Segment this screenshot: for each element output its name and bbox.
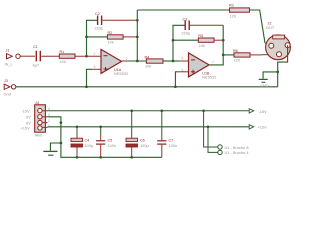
wire U1B output node vertical (209, 25, 223, 65)
ground GND2 (43, 151, 57, 155)
node: tap8 junction (202, 109, 205, 112)
pin circle U1 broche 8 (218, 145, 222, 149)
node: pin3 ground junction (85, 85, 88, 88)
node: R5 left junction (172, 39, 175, 42)
node: C6 ground junction (130, 156, 133, 159)
node: tap4 junction (207, 125, 210, 128)
svg-text:C7: C7 (169, 139, 174, 143)
svg-text:+15V: +15V (21, 126, 31, 131)
svg-text:C5: C5 (108, 139, 113, 143)
arrow +15V (249, 125, 254, 129)
svg-text:U1 - Broche 4: U1 - Broche 4 (225, 150, 250, 155)
svg-text:NE5532: NE5532 (202, 74, 216, 79)
svg-text:C3: C3 (183, 18, 188, 22)
resistor R3 (230, 8, 250, 12)
svg-text:R5: R5 (198, 34, 203, 38)
svg-text:4µ7: 4µ7 (33, 63, 40, 68)
capacitor C4 (100u) top stub (76, 127, 78, 134)
connector J4 (Alim header) (35, 105, 46, 132)
resistor R4 (146, 59, 163, 63)
wire U1A pin3 to ground net (92, 68, 101, 70)
wire to ground symbol GND1 (263, 72, 278, 79)
svg-text:Alim: Alim (35, 133, 43, 138)
node: C7 rail junction (160, 109, 163, 112)
svg-text:100n: 100n (108, 143, 117, 148)
J2 pin A (269, 43, 274, 48)
wire top net to R3 (137, 9, 229, 11)
U1A minus marker (104, 55, 108, 57)
svg-text:2: 2 (48, 119, 50, 123)
svg-text:J4: J4 (35, 101, 39, 105)
svg-text:R2: R2 (108, 31, 113, 35)
svg-text:R1: R1 (60, 50, 65, 54)
wire U1A out to R4 (122, 60, 127, 62)
svg-text:10k: 10k (199, 43, 205, 48)
wire R2 left (87, 36, 108, 38)
svg-text:NE5532: NE5532 (114, 71, 128, 76)
pin lead U1B pin6 (179, 60, 189, 62)
wire J2 pin B to ground (278, 45, 288, 87)
svg-text:100n: 100n (169, 143, 178, 148)
capacitor C7 (100n) top stub (161, 111, 163, 135)
wire feedback left vertical (87, 20, 98, 56)
node: R2 left junction (85, 36, 88, 39)
wire tap U1 pin 8 (204, 111, 218, 147)
wire C2 right (102, 19, 137, 21)
svg-text:R3: R3 (229, 3, 234, 7)
node: C4 rail junction (76, 125, 79, 128)
svg-text:C4: C4 (85, 139, 90, 143)
wire R6 to J2 pin C (250, 54, 262, 56)
resistor R1 (59, 54, 75, 58)
node: J2 ground junction (276, 71, 279, 74)
op-amp U1A (101, 49, 122, 73)
wire U1B feedback left vertical (173, 25, 185, 61)
node: U1B inverting input junction (172, 60, 175, 63)
node: R2 right junction (136, 36, 139, 39)
resistor R5 (198, 38, 214, 42)
node: U1A inverting input junction (85, 55, 88, 58)
wire tap U1 pin 4 (208, 127, 218, 153)
capacitor C6 bottom stub (131, 147, 133, 157)
wire +15V rail (48, 126, 250, 128)
wire R6 left (223, 54, 234, 56)
U1B plus marker (191, 70, 195, 74)
node: C6 rail junction (130, 109, 133, 112)
node: 0V pin2 junction (60, 121, 63, 124)
wire C3 right (190, 24, 223, 26)
node: C5 rail junction (99, 125, 102, 128)
node: C5 ground junction (99, 156, 102, 159)
pin lead J2 pin C (262, 54, 276, 56)
capacitor C4 plates (71, 138, 83, 141)
J2 pin C (277, 52, 282, 57)
J4 pin leads (42, 111, 47, 128)
capacitor C7 plates (157, 141, 166, 144)
wire ground rail (61, 143, 162, 157)
svg-text:OUT: OUT (266, 25, 275, 30)
U1A plus marker (104, 67, 108, 71)
svg-text:U1 - Broche 8: U1 - Broche 8 (225, 145, 249, 150)
svg-text:7: 7 (212, 60, 214, 64)
node: pin5 ground junction (174, 85, 177, 88)
svg-text:120: 120 (230, 13, 237, 18)
wire to ground symbol GND2 (50, 143, 61, 151)
node: C2 right junction (136, 19, 139, 22)
wire feedback right vertical (U1A output node) (136, 10, 138, 61)
wire C1 to R1 (41, 55, 59, 57)
connector J1 (IN_L) (7, 54, 21, 59)
wire -15V rail (48, 110, 250, 112)
node: C4 ground junction (76, 156, 79, 159)
J2 key notch (273, 35, 285, 39)
wire ground reference row (16, 86, 278, 88)
arrow -15V (249, 109, 254, 113)
wire R1 to U1A pin 2 (75, 55, 101, 57)
node: U1A output junction (136, 60, 139, 63)
capacitor C3 (220p) (185, 21, 189, 31)
wire R5 left (173, 39, 198, 41)
U1B minus marker (191, 59, 195, 61)
resistor R2 (107, 35, 123, 39)
node: R5 right junction (222, 39, 225, 42)
svg-text:120: 120 (234, 58, 241, 63)
wire U1B pin5 to ground net (178, 71, 189, 73)
svg-text:0V: 0V (26, 115, 31, 120)
capacitor C5 plates (96, 141, 105, 144)
svg-text:0V: 0V (26, 120, 31, 125)
capacitor C1 (4u7) (36, 51, 40, 62)
svg-text:J1: J1 (6, 48, 10, 52)
pin circle U1 broche 4 (218, 150, 222, 154)
resistor R6 (234, 53, 250, 57)
svg-text:-15V: -15V (22, 109, 31, 114)
svg-text:R6: R6 (233, 49, 238, 53)
pin lead J2 pin A (265, 43, 269, 45)
wire R3 to J2 pin (diagonal) (250, 10, 266, 43)
svg-text:C6: C6 (140, 139, 145, 143)
capacitor C7 bottom stub (161, 145, 163, 158)
svg-text:1: 1 (126, 57, 128, 61)
node: ground tee junction (60, 142, 63, 145)
svg-text:IN_L: IN_L (5, 61, 14, 66)
capacitor C2 (220p) (98, 16, 102, 26)
ground GND1 (259, 79, 268, 82)
connector J3 (Gnd) (4, 84, 16, 89)
svg-text:-15V: -15V (259, 109, 268, 114)
wire R2 right (123, 36, 137, 38)
svg-text:2: 2 (94, 52, 96, 56)
capacitor C6 plates (126, 138, 138, 141)
svg-text:C1: C1 (33, 45, 38, 49)
svg-text:C2: C2 (95, 12, 100, 16)
svg-text:220p: 220p (182, 30, 191, 35)
svg-text:10k: 10k (145, 64, 151, 69)
svg-text:Gnd: Gnd (4, 91, 11, 96)
capacitor C5 bottom stub (100, 145, 102, 158)
node: R6 left junction (222, 54, 225, 57)
capacitor C6 (100u) top stub (131, 111, 133, 134)
svg-text:J3: J3 (4, 79, 8, 83)
svg-text:100µ: 100µ (140, 143, 149, 148)
wire R5 right (214, 39, 223, 41)
wire 0V pins to ground (48, 117, 61, 143)
capacitor C4 bottom stub (76, 147, 78, 157)
svg-text:100µ: 100µ (85, 143, 94, 148)
svg-text:10k: 10k (60, 59, 66, 64)
svg-text:220p: 220p (95, 26, 104, 31)
svg-text:R4: R4 (145, 55, 150, 59)
svg-text:+15V: +15V (258, 125, 268, 130)
J4 pin circles (38, 108, 42, 130)
svg-text:3: 3 (94, 65, 96, 69)
capacitor C5 (100n) top stub (100, 127, 102, 135)
op-amp U1B (189, 53, 210, 77)
wire J1 to C1 (20, 55, 35, 57)
J2 pin B (285, 43, 290, 48)
svg-text:10k: 10k (108, 39, 114, 44)
svg-text:6: 6 (182, 57, 184, 61)
connector J2 (OUT, DIN) (266, 35, 291, 60)
wire R4 to U1B pin6 (163, 60, 179, 62)
svg-text:GND: GND (260, 83, 269, 88)
